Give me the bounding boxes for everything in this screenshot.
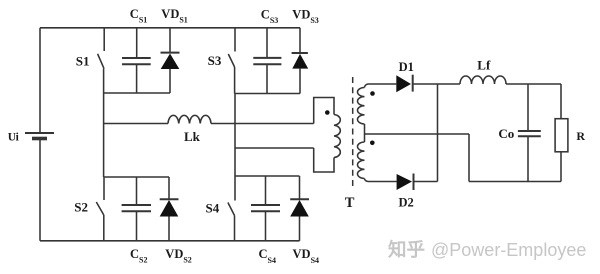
switch S3 xyxy=(228,28,235,94)
wire D2 riser up to top xyxy=(437,84,439,182)
svg-text:VDS3: VDS3 xyxy=(292,7,319,25)
svg-text:S3: S3 xyxy=(208,53,222,68)
wire Lk line left xyxy=(104,123,168,125)
capacitor Co xyxy=(518,84,541,182)
svg-text:T: T xyxy=(345,195,355,211)
transformer core dashed line xyxy=(352,77,354,190)
node D bar (S4 leg top) xyxy=(235,175,300,177)
wire center tap xyxy=(365,133,470,135)
capacitor CS3 xyxy=(253,28,281,94)
wire secondary top to D1 xyxy=(369,83,397,85)
secondary dot top xyxy=(370,91,375,96)
svg-text:CS2: CS2 xyxy=(130,247,147,265)
secondary dot bottom xyxy=(370,141,375,146)
svg-text:VDS1: VDS1 xyxy=(161,7,188,25)
wire left rail lower xyxy=(39,139,41,241)
wire secondary bottom to D2 xyxy=(369,181,397,183)
diode VDS4 xyxy=(290,176,309,241)
svg-text:Lk: Lk xyxy=(184,129,201,144)
transformer secondary winding xyxy=(358,84,369,182)
capacitor CS2 xyxy=(122,177,151,241)
wire left rail upper xyxy=(39,28,41,133)
capacitor CS4 xyxy=(251,176,280,241)
wire right leg mid xyxy=(234,94,236,177)
diode VDS1 xyxy=(161,28,180,93)
diode D2 xyxy=(397,174,414,191)
svg-text:Co: Co xyxy=(498,126,514,141)
diode VDS2 xyxy=(160,177,179,241)
svg-text:S2: S2 xyxy=(74,200,88,215)
svg-text:VDS4: VDS4 xyxy=(293,247,320,265)
svg-text:D1: D1 xyxy=(399,60,414,74)
wire bottom rail xyxy=(40,240,300,242)
diode D1 xyxy=(396,75,412,93)
diode VDS3 xyxy=(292,28,309,94)
svg-text:CS3: CS3 xyxy=(261,7,278,25)
svg-text:D2: D2 xyxy=(399,196,414,210)
wire Lk line right xyxy=(211,123,314,125)
inductor Lk xyxy=(168,115,211,123)
wire D2 to riser xyxy=(414,181,438,183)
wire top rail xyxy=(40,27,300,29)
battery Ui xyxy=(25,133,54,139)
svg-text:R: R xyxy=(576,129,585,143)
svg-text:S4: S4 xyxy=(206,201,220,216)
node B bar (S2 leg top) xyxy=(104,176,169,178)
transformer primary bracket xyxy=(314,98,341,173)
wire center tap riser down xyxy=(468,134,470,182)
wire left leg mid xyxy=(103,93,105,177)
wire output bottom rail xyxy=(469,181,561,183)
wire D1 to output top xyxy=(413,83,460,85)
svg-text:CS4: CS4 xyxy=(259,247,276,265)
watermark 知乎 @Power-Employee xyxy=(388,236,600,262)
svg-text:S1: S1 xyxy=(76,53,90,68)
primary polarity dot xyxy=(325,110,330,115)
resistor R xyxy=(555,84,568,182)
switch S2 xyxy=(96,177,104,241)
svg-text:CS1: CS1 xyxy=(130,7,147,25)
switch S4 xyxy=(228,176,235,241)
wire Lf to right xyxy=(506,83,561,85)
inductor Lf xyxy=(460,76,506,84)
node A bar (S1 leg midpoint) xyxy=(104,92,170,94)
capacitor CS1 xyxy=(122,28,151,93)
svg-text:Lf: Lf xyxy=(477,57,491,72)
node C bar (S3 leg midpoint) xyxy=(235,93,300,95)
svg-text:VDS2: VDS2 xyxy=(165,247,192,265)
svg-text:Ui: Ui xyxy=(8,131,20,143)
wire right leg to primary xyxy=(235,147,314,149)
switch S1 xyxy=(98,28,105,93)
